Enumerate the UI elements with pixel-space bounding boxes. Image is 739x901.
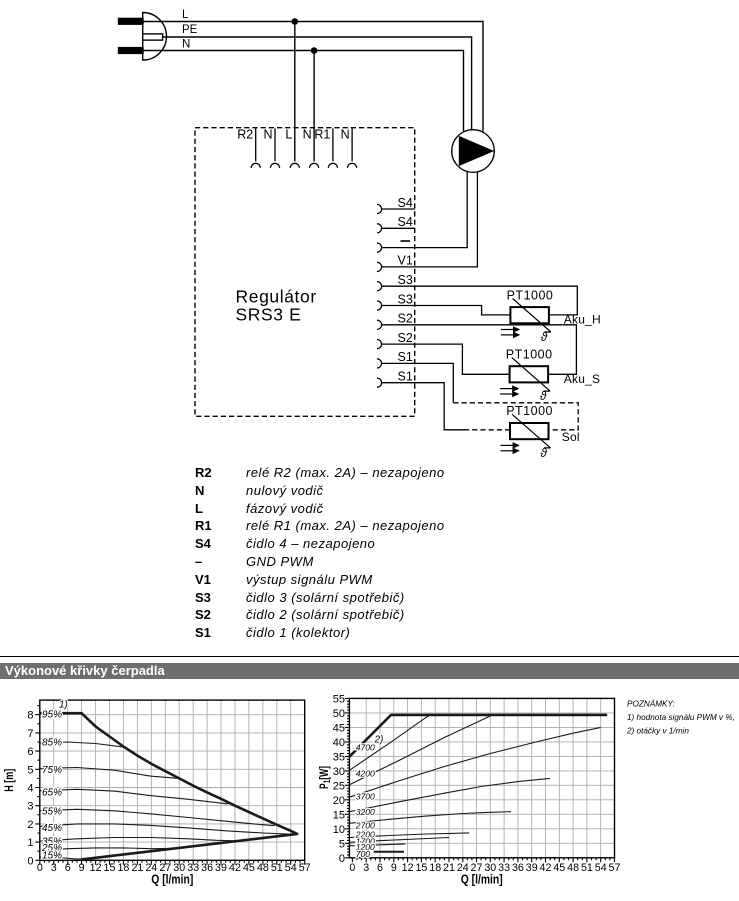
svg-text:P1[W]: P1[W] — [317, 766, 332, 789]
svg-text:0: 0 — [27, 855, 33, 867]
svg-text:54: 54 — [595, 862, 607, 874]
wire PE — [163, 37, 472, 130]
svg-text:Aku_H: Aku_H — [564, 313, 601, 327]
svg-text:36: 36 — [201, 862, 213, 874]
terminal S1 (side #10) — [377, 370, 413, 388]
svg-text:V1: V1 — [398, 254, 413, 268]
chart 2 curve 1700 rpm — [349, 838, 449, 843]
chart 2 grid — [349, 698, 614, 857]
svg-text:75%: 75% — [42, 765, 62, 776]
wire S2 (1) to sensor Aku_S right — [382, 325, 577, 375]
svg-text:6: 6 — [377, 862, 383, 874]
wire S4 (1) stub — [382, 208, 415, 210]
svg-text:45: 45 — [243, 862, 255, 874]
svg-text:6: 6 — [27, 746, 33, 758]
chart 2 curve 1200 rpm — [349, 844, 405, 846]
svg-text:18: 18 — [429, 862, 441, 874]
svg-text:42: 42 — [229, 862, 241, 874]
svg-text:4: 4 — [27, 783, 33, 795]
chart 2 max power line (thick) — [349, 715, 607, 757]
terminal S4 (side #1) — [377, 196, 413, 214]
svg-text:3: 3 — [363, 862, 369, 874]
svg-text:35: 35 — [333, 751, 345, 763]
svg-text:5: 5 — [27, 764, 33, 776]
chart 2 y tick labels — [333, 693, 345, 864]
svg-text:PT1000: PT1000 — [506, 404, 553, 418]
svg-text:3700: 3700 — [356, 792, 375, 802]
svg-text:5: 5 — [339, 838, 345, 850]
terminal S2 (side #8) — [377, 331, 413, 349]
svg-text:PT1000: PT1000 — [507, 288, 554, 302]
svg-text:2: 2 — [27, 819, 33, 831]
svg-text:21: 21 — [131, 862, 143, 874]
chart 1 curve 15% — [40, 857, 91, 859]
svg-text:6: 6 — [65, 862, 71, 874]
chart 1 curve 85% — [40, 742, 123, 747]
svg-text:48: 48 — [567, 862, 579, 874]
chart 1 y tick labels — [27, 710, 33, 868]
svg-text:51: 51 — [271, 862, 283, 874]
svg-text:42: 42 — [540, 862, 552, 874]
terminal R2 (top #1) — [237, 128, 260, 168]
chart 1 ticks — [35, 706, 304, 865]
chart 1 curve 25% — [40, 848, 179, 850]
chart 1 grid — [40, 700, 305, 860]
svg-text:51: 51 — [581, 862, 593, 874]
svg-text:3200: 3200 — [356, 807, 375, 817]
regulator box Regulátor SRS3 E — [195, 128, 415, 417]
svg-text:S3: S3 — [398, 292, 413, 306]
svg-text:POZNÁMKY:: POZNÁMKY: — [627, 698, 675, 708]
terminal S1 (side #9) — [377, 350, 413, 368]
svg-text:N: N — [303, 128, 312, 142]
chart 2 curve 3700 rpm — [349, 727, 600, 797]
svg-text:SRS3 E: SRS3 E — [236, 304, 302, 324]
terminal R1 (top #5) — [314, 128, 337, 168]
svg-text:700: 700 — [356, 849, 371, 859]
svg-text:36: 36 — [512, 862, 524, 874]
svg-text:85%: 85% — [42, 738, 62, 749]
svg-text:45: 45 — [553, 862, 565, 874]
wire S2 (2) to sensor Aku_S left — [382, 344, 510, 374]
svg-text:45: 45 — [333, 722, 345, 734]
svg-text:ϑ: ϑ — [540, 389, 547, 403]
svg-text:L: L — [285, 128, 292, 142]
svg-text:18: 18 — [117, 862, 129, 874]
svg-text:ϑ: ϑ — [541, 330, 548, 344]
svg-text:4700: 4700 — [356, 743, 375, 753]
svg-text:95%: 95% — [42, 709, 62, 720]
svg-text:15: 15 — [333, 809, 345, 821]
svg-text:57: 57 — [299, 862, 311, 874]
svg-text:25: 25 — [333, 780, 345, 792]
svg-text:2): 2) — [374, 735, 384, 746]
wire V1 PWM to pump — [382, 172, 478, 267]
svg-text:H [m]: H [m] — [2, 769, 16, 792]
chart 1 curve 55% — [40, 809, 275, 825]
svg-text:9: 9 — [79, 862, 85, 874]
svg-text:Q [l/min]: Q [l/min] — [461, 873, 503, 887]
sensor PT1000 Aku_H (čidlo 3) — [501, 288, 601, 344]
svg-text:N: N — [263, 128, 272, 142]
terminal S3 (side #6) — [377, 292, 413, 310]
terminal S3 (side #5) — [377, 273, 413, 291]
svg-text:Aku_S: Aku_S — [564, 372, 600, 386]
chart 2 frame — [349, 698, 614, 857]
sensor PT1000 Aku_S (čidlo 2) — [500, 347, 600, 403]
chart 1 envelope curve (95% / max) — [40, 713, 297, 859]
svg-text:S2: S2 — [398, 312, 413, 326]
svg-text:R2: R2 — [237, 128, 253, 142]
svg-text:57: 57 — [609, 862, 621, 874]
svg-text:S4: S4 — [398, 215, 413, 229]
svg-text:R1: R1 — [314, 128, 330, 142]
svg-text:55%: 55% — [42, 806, 62, 817]
wire L — [143, 22, 483, 133]
pump M1 — [452, 130, 495, 173]
svg-text:0: 0 — [339, 853, 345, 865]
svg-text:8: 8 — [27, 710, 33, 722]
chart 1 curve 65% — [40, 789, 228, 804]
terminal N (top #2) — [263, 128, 279, 168]
svg-text:S1: S1 — [398, 350, 413, 364]
chart 2 curve 4700 rpm — [349, 715, 429, 770]
chart 2 curve 3200 rpm — [349, 778, 550, 811]
wire S1 (2) to sensor Sol left (dashed run) — [382, 383, 464, 430]
junction L — [292, 18, 299, 25]
chart 2 ticks — [345, 698, 615, 862]
mains plug — [119, 13, 167, 61]
svg-text:S4: S4 — [398, 196, 413, 210]
svg-text:PE: PE — [182, 24, 198, 36]
chart 1 curve 45% — [40, 824, 289, 834]
wire S4 (2) stub — [382, 227, 415, 229]
wire L drop to terminal — [294, 22, 296, 162]
chart 1 curve 75% — [40, 768, 179, 779]
svg-text:N: N — [341, 128, 350, 142]
chart 1 curve 35% — [40, 838, 245, 842]
terminal L (top #3) — [285, 128, 299, 168]
svg-text:9: 9 — [391, 862, 397, 874]
svg-text:2) otáčky v 1/min: 2) otáčky v 1/min — [626, 726, 689, 735]
svg-text:0: 0 — [349, 862, 355, 874]
terminal S2 (side #7) — [377, 312, 413, 330]
svg-text:0: 0 — [37, 862, 43, 874]
svg-text:55: 55 — [333, 693, 345, 705]
svg-text:3: 3 — [27, 801, 33, 813]
terminal N (top #6) — [341, 128, 357, 168]
section header bar: Výkonové křivky čerpadla — [0, 663, 739, 679]
svg-text:4200: 4200 — [356, 769, 375, 779]
svg-text:50: 50 — [333, 708, 345, 720]
terminal – (side #3) — [377, 241, 410, 252]
svg-text:PT1000: PT1000 — [506, 347, 553, 361]
svg-text:39: 39 — [215, 862, 227, 874]
wire S1 (1) to sensor Sol right (dashed run) — [382, 363, 454, 402]
svg-text:12: 12 — [90, 862, 102, 874]
wire GND PWM to pump — [382, 172, 468, 248]
svg-text:7: 7 — [27, 728, 33, 740]
svg-text:40: 40 — [333, 737, 345, 749]
svg-text:15: 15 — [415, 862, 427, 874]
sensor PT1000 Sol (čidlo 1, kolektor) — [501, 404, 580, 460]
terminal N (top #4) — [303, 128, 319, 168]
svg-text:S2: S2 — [398, 331, 413, 345]
svg-text:30: 30 — [333, 766, 345, 778]
chart 2 curve 2700 rpm — [349, 812, 511, 824]
wire N drop to terminal — [313, 51, 315, 162]
svg-text:21: 21 — [443, 862, 455, 874]
junction N — [311, 47, 318, 54]
svg-text:54: 54 — [285, 862, 297, 874]
svg-text:15: 15 — [104, 862, 116, 874]
chart 1 x tick labels — [37, 862, 311, 874]
legend table — [195, 464, 445, 642]
svg-text:N: N — [182, 38, 190, 50]
terminal V1 (side #4) — [377, 254, 413, 272]
chart 2 curve 2200 rpm — [349, 833, 469, 838]
svg-text:1: 1 — [27, 837, 33, 849]
notes POZNÁMKY — [626, 698, 735, 735]
svg-text:39: 39 — [526, 862, 538, 874]
chart 2 curve 4200 rpm — [349, 715, 492, 785]
svg-text:S3: S3 — [398, 273, 413, 287]
wire N — [143, 51, 464, 132]
separator line — [0, 656, 739, 657]
svg-text:Q [l/min]: Q [l/min] — [151, 873, 193, 887]
svg-text:65%: 65% — [42, 788, 62, 799]
svg-text:L: L — [182, 9, 189, 21]
svg-text:10: 10 — [333, 824, 345, 836]
wire S3 (2) to sensor Aku_H left — [382, 306, 511, 315]
svg-text:15%: 15% — [42, 851, 62, 862]
svg-text:1) hodnota signálu PWM v %,: 1) hodnota signálu PWM v %, — [627, 713, 735, 722]
chart 2 x tick labels — [349, 862, 620, 874]
svg-text:48: 48 — [257, 862, 269, 874]
chart 1 frame — [40, 700, 305, 860]
svg-text:Sol: Sol — [562, 430, 580, 444]
chart 2 curve 700 rpm — [374, 851, 404, 853]
svg-text:20: 20 — [333, 795, 345, 807]
svg-text:3: 3 — [51, 862, 57, 874]
terminal S4 (side #2) — [377, 215, 413, 233]
svg-text:S1: S1 — [398, 370, 413, 384]
svg-text:45%: 45% — [42, 823, 62, 834]
wire S3 (1) to sensor Aku_H right — [382, 286, 578, 315]
svg-text:ϑ: ϑ — [540, 446, 547, 460]
svg-text:12: 12 — [402, 862, 414, 874]
